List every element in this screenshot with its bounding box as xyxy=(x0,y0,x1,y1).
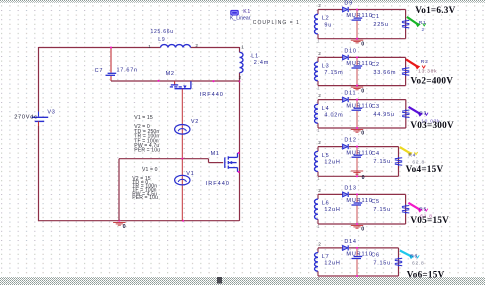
wire: stage 3 bottom xyxy=(318,127,406,129)
svg-text:C5: C5 xyxy=(371,199,380,205)
svg-text:Vo2=400V: Vo2=400V xyxy=(411,76,454,86)
svg-text:D12: D12 xyxy=(344,138,356,144)
wire: stage 2 bottom xyxy=(318,85,406,87)
svg-text:2: 2 xyxy=(318,51,321,56)
capacitor C7 17.67n xyxy=(110,48,112,73)
svg-text:Vo1=6.3V: Vo1=6.3V xyxy=(415,5,455,15)
svg-text:0: 0 xyxy=(361,41,365,47)
wire: C7 to M2 gate xyxy=(111,80,240,82)
capacitor C5 7.15u xyxy=(356,194,358,202)
wire: stage 6 bottom xyxy=(318,275,399,277)
svg-text:L6: L6 xyxy=(322,201,330,207)
inductor L1 2.4m primary xyxy=(240,52,244,72)
transistor M2 IRF440 xyxy=(174,81,176,85)
wire: stage 1 top xyxy=(318,9,343,11)
probe marker R4 xyxy=(400,147,410,153)
svg-text:0: 0 xyxy=(361,131,365,137)
svg-text:R5: R5 xyxy=(419,207,427,213)
svg-text:R6: R6 xyxy=(410,253,418,259)
svg-text:C1: C1 xyxy=(371,14,380,20)
svg-text:2: 2 xyxy=(318,93,321,98)
svg-text:V3: V3 xyxy=(47,110,55,116)
svg-text:L3: L3 xyxy=(322,64,330,70)
svg-text:0: 0 xyxy=(361,88,365,94)
svg-text:2: 2 xyxy=(318,3,321,8)
svg-text:V2: V2 xyxy=(191,119,199,125)
svg-text:0: 0 xyxy=(361,227,365,233)
svg-text:7.15m: 7.15m xyxy=(324,70,343,76)
wire: gate bus horizontal xyxy=(119,158,209,160)
svg-text:2.4m: 2.4m xyxy=(254,60,269,66)
wire: stage 5 right xyxy=(405,194,407,224)
voltage source V3 270Vdc battery xyxy=(38,112,40,117)
svg-text:L9: L9 xyxy=(158,37,165,43)
wire: bottom horizontal bus xyxy=(39,220,240,222)
diode D11 MUR110 xyxy=(343,97,348,102)
wire: stage 4 bottom xyxy=(318,175,399,177)
resistor R3 10.03k xyxy=(402,110,409,111)
inductor L3 7.15m xyxy=(317,57,319,62)
svg-text:62.8: 62.8 xyxy=(412,261,425,267)
voltage source V1 (VPULSE) xyxy=(181,159,183,221)
svg-text:2: 2 xyxy=(422,27,425,33)
svg-text:M2: M2 xyxy=(166,71,175,77)
svg-text:0: 0 xyxy=(362,175,366,181)
svg-text:V05=15V: V05=15V xyxy=(410,215,449,225)
svg-text:12uH: 12uH xyxy=(324,207,340,213)
voltage source V2 (VPULSE) xyxy=(175,125,190,135)
svg-text:L1: L1 xyxy=(251,54,259,60)
wire: stage 1 bottom xyxy=(318,38,406,40)
node: L1/M2 drain junction xyxy=(238,80,240,82)
wire: left vertical branch xyxy=(38,47,40,112)
svg-text:2: 2 xyxy=(318,140,321,145)
svg-text:PER = 10u: PER = 10u xyxy=(132,195,158,201)
svg-text:D9: D9 xyxy=(344,1,353,7)
svg-text:D11: D11 xyxy=(344,91,356,97)
resistor R5 62.8 xyxy=(402,205,409,206)
svg-text:1: 1 xyxy=(317,224,320,229)
svg-text:13.38k: 13.38k xyxy=(418,69,437,75)
scrollbar thumb xyxy=(217,277,222,284)
wire: stage 3 top xyxy=(318,99,343,101)
svg-text:C4: C4 xyxy=(371,151,380,157)
svg-text:C7: C7 xyxy=(95,68,104,74)
probe marker R6 xyxy=(400,251,412,257)
diode D12 MUR110 xyxy=(343,144,348,149)
inductor L5 12uH xyxy=(317,147,319,152)
wire: top horizontal bus xyxy=(39,47,161,49)
capacitor C3 44.95u xyxy=(356,100,358,108)
svg-text:9u: 9u xyxy=(324,22,332,28)
wire: stage 2 top xyxy=(318,56,343,58)
wire: stage 5 top xyxy=(318,193,343,195)
svg-text:2: 2 xyxy=(195,43,198,48)
capacitor C4 7.15u xyxy=(356,147,358,155)
svg-text:COUPLING = 1: COUPLING = 1 xyxy=(253,20,300,26)
wire: M2 drain to right branch xyxy=(212,80,214,82)
svg-text:C6: C6 xyxy=(371,253,380,259)
ground 0 xyxy=(351,129,363,131)
svg-text:V1 = 15: V1 = 15 xyxy=(134,115,153,121)
inductor L9 125.66u xyxy=(161,45,191,48)
svg-text:270Vdc: 270Vdc xyxy=(14,115,37,121)
ground 0 xyxy=(351,39,363,41)
svg-text:C2: C2 xyxy=(371,62,380,68)
svg-text:0: 0 xyxy=(123,224,127,230)
svg-text:K1: K1 xyxy=(243,9,251,15)
svg-text:Vo4=15V: Vo4=15V xyxy=(406,164,444,174)
svg-text:33.66m: 33.66m xyxy=(373,70,396,76)
svg-text:V1 = 0: V1 = 0 xyxy=(142,167,158,173)
inductor L6 12uH xyxy=(317,194,319,199)
svg-text:D10: D10 xyxy=(344,49,356,55)
svg-text:225u: 225u xyxy=(373,22,388,28)
capacitor C6 7.15u xyxy=(356,248,358,256)
svg-text:Vo6=15V: Vo6=15V xyxy=(407,270,445,280)
svg-text:L7: L7 xyxy=(322,254,330,260)
top scrollbar strip xyxy=(0,0,485,3)
svg-text:2: 2 xyxy=(318,241,321,246)
ground 0 (main) xyxy=(113,222,125,224)
probe marker R1 xyxy=(407,17,418,25)
svg-text:D13: D13 xyxy=(344,186,356,192)
diode D14 MUR110 xyxy=(343,246,348,251)
probe marker R5 xyxy=(408,203,420,210)
wire: mid-left vertical xyxy=(118,159,120,221)
capacitor C1 225u xyxy=(356,10,358,18)
svg-text:M1: M1 xyxy=(211,151,220,157)
wire: stage 4 right xyxy=(398,147,400,177)
wire: stage 1 right xyxy=(405,10,407,39)
svg-text:1: 1 xyxy=(241,44,244,49)
svg-text:2: 2 xyxy=(239,75,242,80)
svg-text:7.15u: 7.15u xyxy=(373,159,391,165)
wire: jog to M1 gate xyxy=(208,159,210,163)
svg-text:L2: L2 xyxy=(322,16,330,22)
svg-text:V03=300V: V03=300V xyxy=(410,120,454,130)
resistor R1 2 xyxy=(402,20,409,21)
transistor M1 IRF440 xyxy=(224,157,226,168)
svg-text:1: 1 xyxy=(317,176,320,181)
svg-text:12uH: 12uH xyxy=(324,159,340,165)
svg-text:IRF440: IRF440 xyxy=(206,181,230,187)
svg-text:1: 1 xyxy=(317,39,320,44)
svg-text:L4: L4 xyxy=(322,106,330,112)
svg-text:C3: C3 xyxy=(371,104,380,110)
wire: M2 source to V2 xyxy=(181,89,183,159)
svg-text:1: 1 xyxy=(317,276,320,281)
junction: V1 bottom to bus xyxy=(182,220,184,222)
capacitor C2 33.66m xyxy=(356,57,358,65)
svg-text:R3: R3 xyxy=(419,111,427,117)
svg-text:4.02m: 4.02m xyxy=(324,112,343,118)
probe marker R2 xyxy=(406,59,418,66)
node: M1 drain on right branch xyxy=(238,152,240,154)
ground 0 xyxy=(351,86,363,88)
svg-text:1: 1 xyxy=(148,44,151,49)
svg-text:PER = 10u: PER = 10u xyxy=(134,148,160,154)
svg-text:2: 2 xyxy=(318,188,321,193)
inductor L4 4.02m xyxy=(317,100,319,105)
diode D13 MUR110 xyxy=(343,192,348,197)
wire: stage 2 right xyxy=(405,57,407,85)
ground 0 xyxy=(351,170,363,172)
svg-text:7.15u: 7.15u xyxy=(373,261,391,267)
node: M1 source on right branch xyxy=(238,171,240,173)
svg-text:K_Linear: K_Linear xyxy=(230,16,251,22)
svg-text:1: 1 xyxy=(317,128,320,133)
coupling K1 K_Linear icon xyxy=(230,10,239,16)
wire: stage 5 bottom xyxy=(318,223,406,225)
svg-text:R1: R1 xyxy=(419,20,427,26)
svg-text:125.66u: 125.66u xyxy=(151,29,174,35)
svg-text:R2: R2 xyxy=(421,59,429,65)
wire: stage 6 right xyxy=(398,248,400,276)
wire: stage 4 top xyxy=(318,146,343,148)
resistor R6 62.8 xyxy=(395,258,402,259)
bottom scrollbar strip xyxy=(0,277,485,285)
svg-text:D14: D14 xyxy=(344,239,356,245)
diode D10 MUR110 xyxy=(343,55,348,60)
svg-text:L5: L5 xyxy=(322,153,330,159)
svg-text:IRF440: IRF440 xyxy=(200,92,224,98)
ground 0 xyxy=(351,225,363,227)
wire: stage 3 right xyxy=(405,100,407,128)
svg-text:44.95u: 44.95u xyxy=(373,112,394,118)
svg-text:R4: R4 xyxy=(408,153,416,159)
svg-text:1: 1 xyxy=(317,86,320,91)
svg-text:7.15u: 7.15u xyxy=(373,207,391,213)
inductor L7 12uH xyxy=(317,248,319,253)
svg-text:17.67n: 17.67n xyxy=(117,68,138,74)
wire: right vertical branch xyxy=(239,47,241,52)
wire: stage 6 top xyxy=(318,247,343,249)
svg-text:V1: V1 xyxy=(186,171,194,177)
probe marker R3 xyxy=(409,107,421,114)
resistor R2 13.38k xyxy=(402,68,409,69)
svg-text:12uH: 12uH xyxy=(324,261,340,267)
resistor R4 62.8 xyxy=(395,158,402,159)
diode D9 MUR110 xyxy=(343,7,348,12)
inductor L2 9u xyxy=(317,10,319,15)
